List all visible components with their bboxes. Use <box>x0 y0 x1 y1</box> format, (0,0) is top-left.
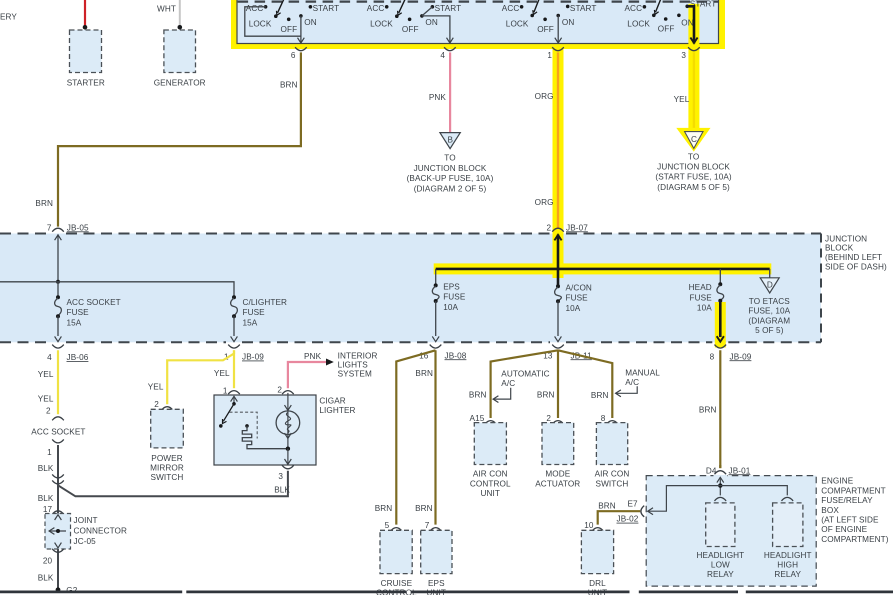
svg-text:CRUISE: CRUISE <box>381 579 413 588</box>
svg-text:CONTROL: CONTROL <box>470 479 511 488</box>
svg-text:POWER: POWER <box>151 454 182 463</box>
connector JB-06 pin 4 <box>52 345 64 349</box>
svg-text:A/C: A/C <box>625 378 639 387</box>
wire BRN JB-08 to cruise control <box>396 350 435 524</box>
svg-text:A/C: A/C <box>501 379 515 388</box>
svg-text:17: 17 <box>43 505 53 514</box>
pin 6 connector at switch <box>295 47 307 51</box>
svg-text:ON: ON <box>304 18 316 27</box>
svg-text:ON: ON <box>562 18 574 27</box>
cruise control (box) <box>380 530 412 573</box>
wire ON contact to pin 6 <box>300 16 302 44</box>
pin 1 connector cup at switch <box>552 47 564 51</box>
svg-text:D4: D4 <box>706 466 717 475</box>
starter (component box) <box>70 30 102 73</box>
highlight glow HEAD fuse output to JB-09 <box>715 302 726 348</box>
svg-text:1: 1 <box>547 51 552 60</box>
svg-text:YEL: YEL <box>674 95 690 104</box>
svg-text:BRN: BRN <box>280 81 298 90</box>
svg-text:MANUAL: MANUAL <box>625 369 660 378</box>
svg-text:BLK: BLK <box>274 486 290 495</box>
connector B (triangle to junction block back-up fuse) <box>440 133 460 149</box>
svg-text:LIGHTER: LIGHTER <box>319 406 355 415</box>
wire YEL pin3 down (fully highlighted) <box>693 52 695 128</box>
svg-text:BOX: BOX <box>821 506 839 515</box>
wire BLK from cigar lighter joining <box>58 471 288 497</box>
svg-text:FUSE: FUSE <box>690 293 713 302</box>
wire ACC contact to output 6 <box>245 7 301 36</box>
svg-text:JUNCTION: JUNCTION <box>825 234 867 243</box>
svg-text:ERY: ERY <box>0 13 17 22</box>
svg-text:E7: E7 <box>628 500 639 509</box>
svg-text:OF ENGINE: OF ENGINE <box>821 525 867 534</box>
svg-text:3: 3 <box>681 51 686 60</box>
fuse C/LIGHTER 15A <box>231 295 287 341</box>
wire BRN DRL unit to engine box E7 <box>598 511 641 524</box>
svg-text:JC-05: JC-05 <box>74 537 97 546</box>
svg-text:CIGAR: CIGAR <box>319 396 345 405</box>
svg-text:YEL: YEL <box>214 369 230 378</box>
svg-text:15A: 15A <box>67 318 82 327</box>
engine compartment fuse/relay box <box>646 476 816 586</box>
svg-text:LOCK: LOCK <box>627 20 650 29</box>
svg-text:ORG: ORG <box>535 92 554 101</box>
connector D (triangle to ETACS fuse) <box>769 269 771 278</box>
svg-text:BRN: BRN <box>699 406 717 415</box>
svg-text:3: 3 <box>278 472 283 481</box>
svg-text:START: START <box>435 4 462 13</box>
cigar lighter pin 2 <box>282 391 294 395</box>
svg-text:FUSE/RELAY: FUSE/RELAY <box>821 496 873 505</box>
svg-text:JUNCTION BLOCK: JUNCTION BLOCK <box>657 163 730 172</box>
wire START contact to ON node <box>422 7 433 16</box>
svg-text:ACC: ACC <box>502 4 520 13</box>
svg-text:OFF: OFF <box>537 25 554 34</box>
svg-text:JB-02: JB-02 <box>617 515 639 524</box>
svg-text:BRN: BRN <box>35 199 53 208</box>
svg-text:8: 8 <box>710 352 715 361</box>
svg-text:7: 7 <box>47 223 52 232</box>
node generator terminal <box>178 25 183 30</box>
svg-text:(BACK-UP FUSE, 10A): (BACK-UP FUSE, 10A) <box>407 174 494 183</box>
fuse EPS 10A <box>432 269 466 342</box>
wire ON node to pin 4 <box>422 16 450 44</box>
svg-text:8: 8 <box>601 414 606 423</box>
svg-text:OFF: OFF <box>281 25 298 34</box>
wire internal feed bus to fuses <box>0 282 234 297</box>
svg-text:2: 2 <box>46 407 51 416</box>
svg-text:C: C <box>691 135 697 144</box>
headlight low relay pin <box>715 497 727 501</box>
svg-text:HEADLIGHT: HEADLIGHT <box>697 551 745 560</box>
svg-text:JB-06: JB-06 <box>67 353 89 362</box>
svg-text:(START FUSE, 10A): (START FUSE, 10A) <box>655 173 731 182</box>
svg-text:6: 6 <box>291 51 296 60</box>
svg-text:EPS: EPS <box>428 579 445 588</box>
cigar lighter pin 3 <box>282 465 294 469</box>
highlight glow ORG entry through JB-07 into bus <box>553 234 564 279</box>
wire BRN JB-11 to air con control unit <box>491 350 558 418</box>
connector JB-05 pin 7 <box>52 228 64 232</box>
switch section 2 <box>367 0 461 43</box>
wire RED battery to starter <box>84 0 86 27</box>
svg-text:2: 2 <box>546 414 551 423</box>
headlight high relay pin <box>782 497 794 501</box>
svg-text:FUSE: FUSE <box>443 293 466 302</box>
wire ON contact to pin 1 <box>557 16 559 44</box>
wire to cigar lighter pin 3 <box>287 449 289 465</box>
svg-text:2: 2 <box>547 223 552 232</box>
svg-text:BRN: BRN <box>469 390 487 399</box>
svg-text:HEAD: HEAD <box>689 283 712 292</box>
node fuse feed junction <box>56 280 60 284</box>
ground bus at page bottom <box>0 591 893 594</box>
svg-text:RELAY: RELAY <box>774 570 801 579</box>
svg-text:TO: TO <box>444 154 455 163</box>
switch lever 4 <box>656 0 662 12</box>
pin 4 connector at switch <box>444 47 456 51</box>
highlighted wire START contact to pin 3 (bold) <box>685 5 689 9</box>
svg-text:COMPARTMENT): COMPARTMENT) <box>821 535 888 544</box>
EPS unit (box) <box>421 530 452 573</box>
svg-text:ACC SOCKET: ACC SOCKET <box>67 298 121 307</box>
DRL unit (box) <box>581 530 613 573</box>
svg-text:BRN: BRN <box>375 504 393 513</box>
svg-text:BLK: BLK <box>38 464 54 473</box>
highlighted internal bus wire (bold) <box>436 268 770 271</box>
junction block (behind left side of dash) band <box>0 234 821 343</box>
svg-text:10: 10 <box>584 521 594 530</box>
svg-text:FUSE, 10A: FUSE, 10A <box>748 307 790 316</box>
svg-text:BRN: BRN <box>591 391 609 400</box>
svg-text:D: D <box>767 280 773 289</box>
connector C (highlighted triangle to junction block start fuse) <box>676 128 710 152</box>
headlight high relay (box) <box>773 503 803 547</box>
connector JB-01 pin D4 <box>715 471 727 475</box>
svg-text:ACC: ACC <box>367 4 385 13</box>
svg-text:LIGHTS: LIGHTS <box>338 361 369 370</box>
ignition switch body <box>237 0 719 44</box>
wire BRN pin6 to JB-05 <box>58 52 301 226</box>
svg-text:LOCK: LOCK <box>370 20 393 29</box>
svg-text:START: START <box>313 4 340 13</box>
svg-text:PNK: PNK <box>304 352 322 361</box>
svg-text:(AT LEFT SIDE: (AT LEFT SIDE <box>821 516 879 525</box>
svg-text:2: 2 <box>154 400 159 409</box>
svg-text:AIR CON: AIR CON <box>473 470 508 479</box>
svg-text:HEADLIGHT: HEADLIGHT <box>764 551 812 560</box>
ground G2 <box>56 587 61 592</box>
svg-text:2: 2 <box>277 386 282 395</box>
wire BRN JB-11 to mode actuator <box>557 350 559 418</box>
pin 3 connector cup at switch <box>688 47 700 51</box>
highlight glow on YEL wire pin3 to connector C <box>688 49 699 129</box>
svg-text:BLK: BLK <box>38 574 54 583</box>
wire BLK acc socket to ground <box>57 445 59 590</box>
switch section 1 <box>245 0 339 43</box>
svg-text:INTERIOR: INTERIOR <box>338 351 378 360</box>
switch lever 2 <box>399 0 406 13</box>
svg-text:ACC: ACC <box>246 4 264 13</box>
svg-text:20: 20 <box>43 556 53 565</box>
connector JB-09 pin 1 <box>228 345 240 349</box>
svg-text:MODE: MODE <box>545 470 570 479</box>
highlighted wire HEAD fuse to JB-09 pin 8 (bold) <box>719 301 722 337</box>
svg-text:LOCK: LOCK <box>249 20 272 29</box>
wire BRN JB-08 to EPS unit <box>434 350 436 524</box>
svg-text:1: 1 <box>223 387 228 396</box>
svg-text:AIR CON: AIR CON <box>595 470 630 479</box>
wire YEL JB-09 to cigar lighter <box>233 350 235 388</box>
svg-text:FUSE: FUSE <box>67 308 90 317</box>
svg-text:EPS: EPS <box>443 282 460 291</box>
svg-text:ACC SOCKET: ACC SOCKET <box>31 428 85 437</box>
svg-text:ORG: ORG <box>535 198 554 207</box>
svg-text:FUSE: FUSE <box>243 308 266 317</box>
cigar lighter heating element <box>245 424 249 428</box>
svg-text:JB-07: JB-07 <box>566 223 588 232</box>
svg-text:PNK: PNK <box>429 93 447 102</box>
svg-text:WHT: WHT <box>157 5 176 14</box>
svg-text:ON: ON <box>681 19 693 28</box>
svg-text:(DIAGRAM 2 OF 5): (DIAGRAM 2 OF 5) <box>414 184 487 193</box>
svg-text:ACC: ACC <box>625 4 643 13</box>
power mirror switch pin 2 <box>161 407 173 411</box>
svg-text:SWITCH: SWITCH <box>596 479 629 488</box>
svg-text:BRN: BRN <box>598 501 616 510</box>
air con switch (box) <box>596 423 627 465</box>
wire engine box distribution <box>648 486 788 512</box>
svg-text:SIDE OF DASH): SIDE OF DASH) <box>825 263 887 272</box>
mode actuator (box) <box>542 423 574 465</box>
svg-text:AUTOMATIC: AUTOMATIC <box>501 370 549 379</box>
svg-text:7: 7 <box>425 521 430 530</box>
highlighted wire JB-07 to bus and A/CON fuse (bold) <box>557 235 560 287</box>
fuse ACC SOCKET 15A <box>55 282 121 342</box>
svg-text:(DIAGRAM: (DIAGRAM <box>748 316 790 325</box>
svg-text:ENGINE: ENGINE <box>821 477 853 486</box>
svg-text:C/LIGHTER: C/LIGHTER <box>243 298 288 307</box>
svg-text:10A: 10A <box>443 303 458 312</box>
svg-text:FUSE: FUSE <box>566 294 589 303</box>
svg-text:GENERATOR: GENERATOR <box>154 79 206 88</box>
svg-text:JB-01: JB-01 <box>729 466 751 475</box>
svg-text:RELAY: RELAY <box>707 570 734 579</box>
svg-text:DRL: DRL <box>589 579 606 588</box>
wire YEL JB-09 to power mirror switch <box>167 350 234 404</box>
acc socket pin 1 <box>52 439 64 443</box>
wire inside engine box from D4 <box>717 477 724 482</box>
wire PNK pin4 to connector B <box>449 52 451 132</box>
highlight glow on internal bus <box>434 263 772 274</box>
svg-text:5 OF 5): 5 OF 5) <box>755 326 784 335</box>
svg-text:BRN: BRN <box>537 390 555 399</box>
wire inside junction block from JB-05 <box>57 235 59 282</box>
svg-text:BLOCK: BLOCK <box>825 244 854 253</box>
svg-text:4: 4 <box>440 51 445 60</box>
ignition switch highlighted frame <box>231 0 725 49</box>
connector JB-07 pin 2 (highlighted) <box>552 228 564 232</box>
cigar lighter pin 1 <box>228 391 240 395</box>
svg-text:STARTER: STARTER <box>67 79 105 88</box>
fuse A/CON 10A <box>555 284 592 342</box>
wire ORG pin1 to JB-07 <box>557 52 559 228</box>
svg-text:CONNECTOR: CONNECTOR <box>74 527 128 536</box>
svg-text:TO: TO <box>688 152 699 161</box>
switch lever 3 <box>534 0 540 12</box>
svg-text:10A: 10A <box>566 304 581 313</box>
svg-text:(DIAGRAM 5 OF 5): (DIAGRAM 5 OF 5) <box>657 183 730 192</box>
svg-text:A15: A15 <box>470 414 485 423</box>
mechanical linkage (dashed) <box>230 412 258 438</box>
cigar lighter illumination lamp <box>287 393 289 449</box>
connector E7 cup at engine box edge <box>641 506 644 517</box>
headlight low relay (box) <box>706 503 735 547</box>
svg-text:OFF: OFF <box>402 25 419 34</box>
wire BRN JB-11 to air con switch <box>558 350 612 418</box>
wire YEL JB-06 to ACC socket <box>57 350 59 414</box>
svg-text:BLK: BLK <box>38 494 54 503</box>
connector JB-11 pin 13 <box>552 345 564 349</box>
svg-text:LOW: LOW <box>711 561 730 570</box>
svg-text:ACTUATOR: ACTUATOR <box>535 479 580 488</box>
svg-text:JB-09: JB-09 <box>242 353 264 362</box>
svg-text:TO ETACS: TO ETACS <box>749 297 790 306</box>
svg-text:OFF: OFF <box>658 25 675 34</box>
node engine box junction <box>718 483 722 487</box>
cigar lighter switch <box>231 396 238 401</box>
svg-text:YEL: YEL <box>38 395 54 404</box>
svg-text:ON: ON <box>425 18 437 27</box>
svg-text:JOINT: JOINT <box>74 516 98 525</box>
wire BRN JB-09 to engine compartment box D4 <box>719 350 721 468</box>
svg-text:LOCK: LOCK <box>506 20 529 29</box>
svg-text:UNIT: UNIT <box>481 489 501 498</box>
switch section 4 <box>625 0 717 43</box>
switch section 3 <box>502 0 597 43</box>
inline connector on BLK wire <box>52 474 64 478</box>
svg-text:YEL: YEL <box>38 370 54 379</box>
svg-text:SYSTEM: SYSTEM <box>338 370 372 379</box>
node starter terminal <box>83 25 88 30</box>
air con control unit (box) <box>474 423 506 465</box>
cigar lighter (box) <box>214 395 316 465</box>
node lamp/element junction <box>286 447 290 451</box>
svg-text:JB-05: JB-05 <box>67 223 89 232</box>
svg-text:MIRROR: MIRROR <box>150 464 184 473</box>
fuse HEAD 10A (output highlighted) <box>689 269 724 313</box>
svg-text:START: START <box>570 4 597 13</box>
svg-text:5: 5 <box>385 521 390 530</box>
svg-text:HIGH: HIGH <box>777 561 798 570</box>
svg-text:YEL: YEL <box>148 383 164 392</box>
svg-text:BRN: BRN <box>415 369 433 378</box>
svg-text:BRN: BRN <box>415 504 433 513</box>
svg-text:(BEHIND LEFT: (BEHIND LEFT <box>825 253 882 262</box>
ignition switch dashed top border <box>238 1 718 3</box>
svg-text:B: B <box>448 136 454 145</box>
svg-text:JUNCTION BLOCK: JUNCTION BLOCK <box>414 164 487 173</box>
svg-text:JB-09: JB-09 <box>730 352 752 361</box>
svg-text:JB-08: JB-08 <box>445 351 467 360</box>
switch lever 1 <box>278 0 285 13</box>
svg-text:10A: 10A <box>697 304 712 313</box>
power mirror switch (box) <box>151 409 184 448</box>
svg-text:1: 1 <box>47 448 52 457</box>
generator (component box) <box>164 30 196 73</box>
connector JB-08 pin 16 <box>430 345 442 349</box>
svg-text:SWITCH: SWITCH <box>151 473 184 482</box>
acc socket pin 2 <box>52 417 64 421</box>
highlight glow on START wire inside switch <box>688 4 699 49</box>
svg-text:A/CON: A/CON <box>566 284 592 293</box>
svg-text:COMPARTMENT: COMPARTMENT <box>821 486 885 495</box>
connector JB-09 pin 8 <box>715 345 727 349</box>
highlight glow on ORG wire pin1 to JB-07 <box>553 49 564 273</box>
svg-text:15A: 15A <box>243 318 258 327</box>
svg-text:4: 4 <box>47 353 52 362</box>
wire PNK interior lights to cigar lighter pin 2 <box>288 362 326 388</box>
